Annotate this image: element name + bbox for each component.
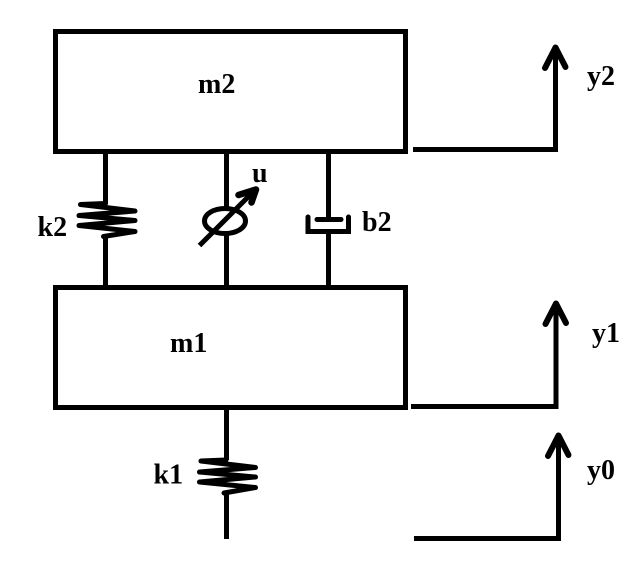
svg-text:y0: y0	[587, 455, 615, 486]
wire: lower rod of spring k1 (free end)	[224, 492, 229, 539]
actuator U1 arrow shaft	[200, 192, 254, 246]
wire: lower rod of damper b2 (cup to m1)	[326, 231, 331, 287]
wire: upper rod of damper b2 (m2 to piston)	[326, 154, 331, 221]
wire: lower rod of spring k2 (spring to m1)	[103, 236, 108, 287]
wire: upper rod of spring k1 (m1 to spring)	[224, 410, 229, 460]
mass m1 (lower block)	[56, 288, 406, 408]
svg-text:y1: y1	[592, 318, 620, 349]
svg-text:b2: b2	[362, 207, 392, 238]
spring k1 (coil below m1)	[200, 460, 256, 493]
svg-text:m2: m2	[198, 69, 235, 100]
axis y2 baseline wire	[413, 147, 558, 152]
arrow y1 shaft	[554, 305, 559, 409]
damper b2 cylinder cup	[308, 217, 349, 232]
wire: lower rod of actuator u (actuator to m1)	[224, 233, 229, 287]
arrow y2 shaft	[553, 49, 558, 152]
actuator U1 circle (force source u)	[205, 209, 246, 234]
svg-text:k1: k1	[154, 460, 184, 491]
actuator U1 arrowhead	[239, 190, 257, 203]
wire: upper rod of spring k2 (m2 to spring)	[103, 154, 108, 204]
arrow y2 head	[545, 48, 566, 69]
damper b2 piston plate	[317, 217, 341, 222]
svg-text:m1: m1	[170, 328, 207, 359]
arrow y0 shaft	[556, 437, 561, 541]
spring k2 (coil between m2 and m1)	[79, 204, 135, 237]
arrow y1 head	[546, 304, 567, 325]
mass m2 (upper block)	[56, 32, 406, 152]
svg-text:y2: y2	[587, 61, 615, 92]
svg-text:k2: k2	[38, 212, 68, 243]
wire: upper rod of actuator u (m2 to actuator)	[224, 154, 229, 209]
axis y0 baseline wire	[414, 536, 561, 541]
axis y1 baseline wire	[411, 404, 559, 409]
svg-text:u: u	[252, 158, 268, 189]
arrow y0 head	[548, 436, 569, 457]
